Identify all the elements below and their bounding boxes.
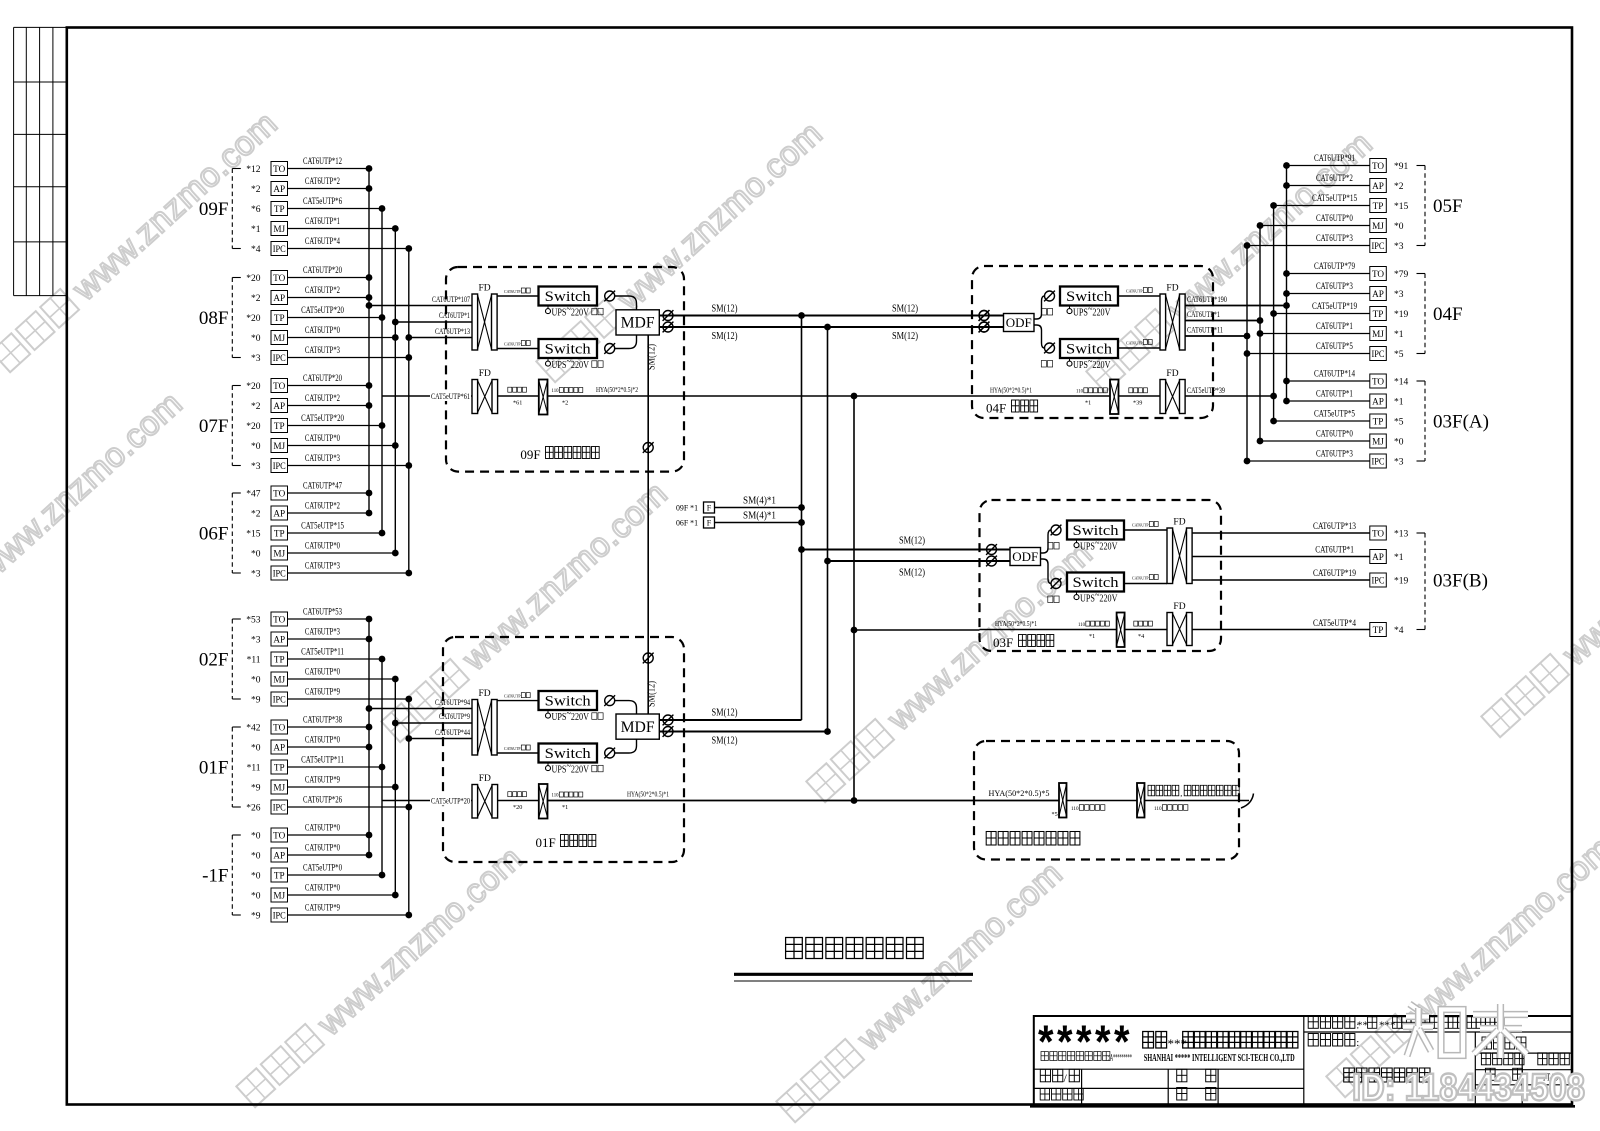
svg-text:*4: *4	[251, 245, 261, 255]
svg-text:AP: AP	[273, 850, 285, 860]
svg-text:CAT6UTP*1: CAT6UTP*1	[1316, 322, 1353, 332]
svg-text:CAT6UTP*4: CAT6UTP*4	[305, 237, 340, 247]
svg-text:MDF: MDF	[621, 315, 655, 332]
svg-text:TP: TP	[274, 762, 285, 772]
svg-text:SM(12): SM(12)	[712, 736, 738, 747]
svg-text:CAT6UTP: CAT6UTP	[1126, 289, 1143, 294]
svg-text:HYA(50*2*0.5)*2: HYA(50*2*0.5)*2	[596, 386, 638, 394]
svg-text:*19: *19	[1394, 310, 1409, 320]
svg-text:*0: *0	[251, 676, 261, 686]
svg-text:Switch: Switch	[545, 342, 592, 358]
svg-text:07F: 07F	[199, 416, 229, 437]
svg-text:CAT6UTP*0: CAT6UTP*0	[305, 844, 340, 854]
svg-text:CAT6UTP: CAT6UTP	[504, 746, 521, 751]
svg-text:IPC: IPC	[1372, 575, 1385, 585]
svg-text:*1: *1	[1089, 633, 1095, 640]
svg-text:CAT6UTP*9: CAT6UTP*9	[305, 688, 340, 698]
svg-text:CAT6UTP*0: CAT6UTP*0	[305, 326, 340, 336]
svg-text:*15: *15	[1394, 202, 1409, 212]
svg-text:*15: *15	[246, 530, 261, 540]
svg-text:TP: TP	[1373, 309, 1384, 319]
svg-text:*5: *5	[1394, 418, 1404, 428]
svg-text:*3: *3	[1394, 290, 1404, 300]
svg-text:*0: *0	[251, 832, 261, 842]
svg-text:IPC: IPC	[273, 694, 286, 704]
svg-text:CAT6UTP*26: CAT6UTP*26	[303, 796, 342, 806]
svg-text:110: 110	[552, 389, 560, 394]
svg-text:CAT5eUTP*11: CAT5eUTP*11	[301, 648, 344, 658]
svg-text:*42: *42	[246, 724, 261, 734]
svg-text:IPC: IPC	[1372, 456, 1385, 466]
svg-text:CAT6UTP*1: CAT6UTP*1	[1315, 546, 1354, 556]
svg-text:CAT6UTP*47: CAT6UTP*47	[303, 482, 342, 492]
svg-text:CAT5eUTP*20: CAT5eUTP*20	[431, 795, 470, 805]
svg-text:TP: TP	[274, 654, 285, 664]
svg-text:CAT6UTP*44: CAT6UTP*44	[435, 727, 470, 737]
svg-text:*3: *3	[251, 354, 261, 364]
svg-text:09F: 09F	[199, 199, 229, 220]
svg-text:Switch: Switch	[1066, 289, 1113, 305]
svg-text:ID: 1184434508: ID: 1184434508	[1352, 1067, 1585, 1109]
svg-text:*3: *3	[251, 570, 261, 580]
svg-text:MJ: MJ	[273, 674, 285, 684]
svg-text:*0: *0	[251, 744, 261, 754]
svg-text:TP: TP	[1373, 201, 1384, 211]
svg-text:HYA(50*2*0.5)*1: HYA(50*2*0.5)*1	[990, 387, 1032, 395]
svg-text:TP: TP	[274, 421, 285, 431]
svg-text:MJ: MJ	[1372, 221, 1384, 231]
svg-text:CAT6UTP*2: CAT6UTP*2	[305, 502, 340, 512]
svg-text:*20: *20	[246, 314, 261, 324]
svg-text:AP: AP	[273, 742, 285, 752]
svg-text:SM(12): SM(12)	[899, 568, 925, 579]
svg-text:05F: 05F	[1433, 196, 1463, 217]
svg-text:*20: *20	[246, 274, 261, 284]
svg-text:SM(12): SM(12)	[712, 708, 738, 719]
svg-text:*13: *13	[1394, 530, 1409, 540]
svg-text:SM(12): SM(12)	[647, 681, 658, 707]
svg-text:TO: TO	[273, 830, 285, 840]
svg-text:*53: *53	[246, 616, 261, 626]
svg-text:CAT6UTP*3: CAT6UTP*3	[305, 346, 340, 356]
svg-text:CAT6UTP*0: CAT6UTP*0	[305, 824, 340, 834]
svg-text:CAT6UTP: CAT6UTP	[1132, 523, 1149, 528]
svg-text:FD: FD	[479, 774, 491, 784]
svg-text:TP: TP	[274, 528, 285, 538]
svg-text:FD: FD	[479, 369, 491, 379]
svg-text:*2: *2	[251, 185, 261, 195]
svg-text:CAT5eUTP*20: CAT5eUTP*20	[301, 306, 344, 316]
svg-text:04F: 04F	[1433, 304, 1463, 325]
svg-text:*2: *2	[251, 402, 261, 412]
svg-text:IPC: IPC	[273, 910, 286, 920]
svg-text:*9: *9	[251, 784, 261, 794]
svg-text:*2: *2	[1394, 182, 1404, 192]
svg-text:TO: TO	[273, 273, 285, 283]
svg-text:110: 110	[1154, 806, 1162, 812]
svg-text:03F(B): 03F(B)	[1433, 571, 1488, 592]
svg-text:*1: *1	[1085, 400, 1091, 407]
svg-text:03F(A): 03F(A)	[1433, 412, 1489, 433]
svg-text:*79: *79	[1394, 270, 1409, 280]
svg-text:TO: TO	[1372, 528, 1384, 538]
svg-text:: A*********: : A*********	[1108, 1054, 1132, 1064]
svg-text:CAT6UTP*2: CAT6UTP*2	[305, 286, 340, 296]
svg-text:09F: 09F	[520, 447, 540, 462]
svg-text:Switch: Switch	[545, 694, 592, 710]
svg-text:CAT6UTP: CAT6UTP	[504, 289, 521, 294]
svg-text:*20: *20	[513, 804, 522, 811]
svg-text:TP: TP	[274, 204, 285, 214]
svg-text:CAT6UTP*20: CAT6UTP*20	[303, 266, 342, 276]
svg-text:*19: *19	[1394, 577, 1409, 587]
svg-text:CAT6UTP*0: CAT6UTP*0	[305, 736, 340, 746]
svg-text:AP: AP	[273, 508, 285, 518]
svg-text:SHANHAI ***** INTELLIGENT SCI-: SHANHAI ***** INTELLIGENT SCI-TECH CO.,L…	[1144, 1053, 1295, 1064]
svg-text:IPC: IPC	[273, 568, 286, 578]
svg-text:SM(4)*1: SM(4)*1	[743, 510, 776, 521]
svg-text:*5: *5	[1394, 350, 1404, 360]
svg-text:*3: *3	[1394, 458, 1404, 468]
svg-text:CAT6UTP*79: CAT6UTP*79	[1314, 262, 1355, 272]
svg-text:Switch: Switch	[1066, 342, 1113, 358]
svg-text:*3: *3	[251, 636, 261, 646]
svg-text:CAT6UTP*3: CAT6UTP*3	[305, 628, 340, 638]
svg-text:*39: *39	[1133, 400, 1142, 407]
svg-text:CAT6UTP*38: CAT6UTP*38	[303, 716, 342, 726]
svg-text:CAT6UTP*107: CAT6UTP*107	[432, 294, 470, 304]
svg-text:*11: *11	[247, 656, 261, 666]
svg-text:*3: *3	[251, 462, 261, 472]
svg-text:*1: *1	[1394, 398, 1404, 408]
svg-text:IPC: IPC	[273, 353, 286, 363]
svg-text:CAT5eUTP*11: CAT5eUTP*11	[301, 756, 344, 766]
svg-text:IPC: IPC	[273, 802, 286, 812]
svg-text:CAT6UTP*13: CAT6UTP*13	[435, 326, 470, 336]
svg-text:AP: AP	[273, 401, 285, 411]
svg-text:CAT6UTP*1: CAT6UTP*1	[305, 217, 340, 227]
svg-text:TP: TP	[1373, 625, 1384, 635]
svg-text:*4: *4	[1138, 633, 1144, 640]
svg-text:CAT5eUTP*20: CAT5eUTP*20	[301, 414, 344, 424]
svg-text:FD: FD	[1173, 602, 1185, 612]
svg-text:*1: *1	[1394, 330, 1404, 340]
svg-text:*0: *0	[251, 892, 261, 902]
svg-text:*1: *1	[251, 225, 261, 235]
svg-text:CAT6UTP*5: CAT6UTP*5	[1316, 342, 1353, 352]
svg-text:06F: 06F	[199, 524, 229, 545]
svg-text:SM(12): SM(12)	[899, 536, 925, 547]
svg-text:CAT6UTP*2: CAT6UTP*2	[305, 177, 340, 187]
svg-text:ODF: ODF	[1006, 315, 1032, 330]
svg-text:AP: AP	[273, 634, 285, 644]
svg-text:SM(4)*1: SM(4)*1	[743, 495, 776, 506]
svg-text:TO: TO	[273, 381, 285, 391]
svg-text:CAT5eUTP*15: CAT5eUTP*15	[301, 522, 344, 532]
svg-text:*9: *9	[251, 696, 261, 706]
svg-text:AP: AP	[1372, 552, 1384, 562]
svg-text:*0: *0	[251, 550, 261, 560]
svg-text:CAT6UTP*94: CAT6UTP*94	[435, 697, 470, 707]
svg-text:CAT6UTP*2: CAT6UTP*2	[1316, 174, 1353, 184]
svg-text:*9: *9	[251, 912, 261, 922]
svg-text:F: F	[707, 503, 712, 512]
svg-text:AP: AP	[273, 184, 285, 194]
svg-text:TP: TP	[274, 313, 285, 323]
svg-text:**: **	[1357, 1019, 1368, 1031]
svg-text:04F: 04F	[986, 401, 1006, 416]
svg-text:*11: *11	[247, 764, 261, 774]
svg-text:CAT6UTP*3: CAT6UTP*3	[1316, 282, 1353, 292]
svg-text:09F *1: 09F *1	[676, 503, 698, 513]
svg-text:CAT6UTP*3: CAT6UTP*3	[305, 454, 340, 464]
svg-text:CAT6UTP*9: CAT6UTP*9	[305, 776, 340, 786]
svg-text:CAT6UTP*0: CAT6UTP*0	[305, 434, 340, 444]
svg-text:***: ***	[1168, 1036, 1188, 1051]
svg-text:CAT5eUTP*15: CAT5eUTP*15	[1312, 194, 1357, 204]
svg-text:*61: *61	[513, 400, 522, 407]
svg-text:-1F: -1F	[202, 866, 228, 887]
svg-text:01F: 01F	[199, 758, 229, 779]
svg-text:*1: *1	[1394, 553, 1404, 563]
svg-text:CAT5eUTP*6: CAT5eUTP*6	[303, 197, 342, 207]
svg-text:MJ: MJ	[273, 782, 285, 792]
svg-text:06F *1: 06F *1	[676, 518, 698, 528]
svg-text:*47: *47	[246, 490, 261, 500]
svg-text:*0: *0	[1394, 438, 1404, 448]
svg-text:HYA(50*2*0.5)*1: HYA(50*2*0.5)*1	[995, 620, 1037, 628]
svg-text:*6: *6	[251, 205, 261, 215]
svg-text:*0: *0	[1394, 222, 1404, 232]
svg-text::: :	[1356, 1037, 1359, 1049]
svg-text:Switch: Switch	[545, 289, 592, 305]
svg-text:CAT5eUTP*19: CAT5eUTP*19	[1312, 302, 1357, 312]
svg-text:*4: *4	[1394, 626, 1404, 636]
svg-text:CAT5eUTP*0: CAT5eUTP*0	[303, 864, 342, 874]
svg-text:110: 110	[552, 794, 560, 799]
svg-text:TP: TP	[274, 870, 285, 880]
svg-text:CAT6UTP*13: CAT6UTP*13	[1313, 522, 1356, 532]
svg-text:*12: *12	[246, 165, 261, 175]
svg-text:CAT6UTP*11: CAT6UTP*11	[1187, 325, 1223, 335]
svg-text:01F: 01F	[536, 835, 556, 850]
svg-text:CAT6UTP*9: CAT6UTP*9	[439, 711, 470, 721]
svg-text:TO: TO	[273, 722, 285, 732]
svg-text:MJ: MJ	[273, 441, 285, 451]
svg-text:MJ: MJ	[273, 548, 285, 558]
svg-text:TO: TO	[1372, 376, 1384, 386]
svg-text:CAT5eUTP*61: CAT5eUTP*61	[431, 391, 470, 401]
svg-text:*3: *3	[1394, 242, 1404, 252]
svg-text:*26: *26	[246, 804, 261, 814]
svg-text:HYA(50*2*0.5)*5: HYA(50*2*0.5)*5	[989, 789, 1050, 798]
svg-text:*2: *2	[251, 294, 261, 304]
svg-text:CAT6UTP*0: CAT6UTP*0	[305, 668, 340, 678]
svg-text:CAT6UTP*9: CAT6UTP*9	[305, 904, 340, 914]
svg-text:TO: TO	[273, 614, 285, 624]
svg-text:*14: *14	[1394, 378, 1409, 388]
svg-text:MJ: MJ	[1372, 329, 1384, 339]
svg-text:CAT6UTP: CAT6UTP	[504, 342, 521, 347]
svg-text:110: 110	[1071, 806, 1079, 812]
svg-text:*0: *0	[251, 872, 261, 882]
svg-text:F: F	[707, 518, 712, 527]
svg-text:CAT6UTP*1: CAT6UTP*1	[439, 310, 470, 320]
svg-text:MDF: MDF	[621, 719, 655, 736]
svg-text:CAT6UTP*19: CAT6UTP*19	[1313, 569, 1356, 579]
svg-text:TO: TO	[1372, 269, 1384, 279]
svg-text:CAT6UTP*12: CAT6UTP*12	[303, 157, 342, 167]
svg-text:CAT5eUTP*39: CAT5eUTP*39	[1187, 385, 1225, 395]
svg-text:03F: 03F	[993, 635, 1013, 650]
svg-text:AP: AP	[273, 293, 285, 303]
svg-text:CAT5eUTP*4: CAT5eUTP*4	[1313, 619, 1356, 629]
svg-text:CAT6UTP*1: CAT6UTP*1	[1316, 390, 1353, 400]
svg-text:CAT6UTP*3: CAT6UTP*3	[1316, 450, 1353, 460]
svg-text:HYA(50*2*0.5)*1: HYA(50*2*0.5)*1	[627, 791, 669, 799]
svg-text:CAT6UTP*0: CAT6UTP*0	[1316, 214, 1353, 224]
svg-text:MJ: MJ	[1372, 436, 1384, 446]
svg-text:02F: 02F	[199, 650, 229, 671]
svg-text:110: 110	[1078, 623, 1086, 628]
svg-text:CAT6UTP*3: CAT6UTP*3	[1316, 234, 1353, 244]
svg-text:CAT6UTP*91: CAT6UTP*91	[1314, 154, 1355, 164]
svg-text:TO: TO	[1372, 161, 1384, 171]
svg-text:SM(12): SM(12)	[647, 344, 658, 370]
svg-text:FD: FD	[479, 689, 491, 699]
svg-text:CAT5eUTP*5: CAT5eUTP*5	[1314, 410, 1355, 420]
svg-text:SM(12): SM(12)	[892, 304, 918, 315]
svg-text:,: ,	[1180, 789, 1182, 798]
svg-text:IPC: IPC	[273, 461, 286, 471]
svg-text:08F: 08F	[199, 308, 229, 329]
svg-text:*1: *1	[562, 804, 568, 811]
svg-text:FD: FD	[1166, 284, 1178, 294]
svg-text:AP: AP	[1372, 289, 1384, 299]
svg-text:IPC: IPC	[1372, 241, 1385, 251]
svg-text:IPC: IPC	[273, 244, 286, 254]
svg-text:ODF: ODF	[1012, 549, 1038, 564]
svg-text:TP: TP	[1373, 416, 1384, 426]
svg-text:*91: *91	[1394, 162, 1409, 172]
svg-text:CAT6UTP*1: CAT6UTP*1	[1187, 309, 1220, 319]
svg-text:Switch: Switch	[1073, 523, 1120, 539]
svg-text:CAT6UTP: CAT6UTP	[1126, 341, 1143, 346]
svg-text:Switch: Switch	[1073, 575, 1120, 591]
svg-text:IPC: IPC	[1372, 349, 1385, 359]
svg-text:SM(12): SM(12)	[712, 331, 738, 342]
svg-text:CAT6UTP*3: CAT6UTP*3	[305, 562, 340, 572]
svg-text:*0: *0	[251, 442, 261, 452]
svg-text:FD: FD	[1166, 369, 1178, 379]
svg-text:CAT6UTP: CAT6UTP	[504, 694, 521, 699]
svg-text:Switch: Switch	[545, 746, 592, 762]
svg-text:MJ: MJ	[273, 333, 285, 343]
svg-text:CAT6UTP*0: CAT6UTP*0	[305, 884, 340, 894]
svg-text:MJ: MJ	[273, 890, 285, 900]
svg-text:SM(12): SM(12)	[712, 304, 738, 315]
svg-text:*5: *5	[1052, 811, 1058, 818]
svg-text:*20: *20	[246, 422, 261, 432]
svg-text:SM(12): SM(12)	[892, 331, 918, 342]
svg-text:CAT6UTP*0: CAT6UTP*0	[1316, 430, 1353, 440]
svg-text:CAT6UTP*53: CAT6UTP*53	[303, 608, 342, 618]
svg-text:AP: AP	[1372, 396, 1384, 406]
svg-text:FD: FD	[1173, 518, 1185, 528]
svg-text:AP: AP	[1372, 181, 1384, 191]
svg-text:CAT6UTP: CAT6UTP	[1132, 576, 1149, 581]
svg-text:*20: *20	[246, 382, 261, 392]
svg-text:*2: *2	[251, 510, 261, 520]
svg-text:MJ: MJ	[273, 224, 285, 234]
svg-text:CAT6UTP*20: CAT6UTP*20	[303, 374, 342, 384]
svg-text:TO: TO	[273, 164, 285, 174]
svg-text:CAT6UTP*0: CAT6UTP*0	[305, 542, 340, 552]
svg-text:TO: TO	[273, 488, 285, 498]
svg-text:*0: *0	[251, 852, 261, 862]
svg-text:*2: *2	[562, 400, 568, 407]
svg-text:CAT6UTP*2: CAT6UTP*2	[305, 394, 340, 404]
svg-text:110: 110	[1076, 390, 1084, 395]
svg-text:CAT6UTP*14: CAT6UTP*14	[1314, 370, 1355, 380]
svg-text:CAT6UTP*190: CAT6UTP*190	[1187, 294, 1227, 304]
svg-text:FD: FD	[479, 284, 491, 294]
svg-text:*0: *0	[251, 334, 261, 344]
